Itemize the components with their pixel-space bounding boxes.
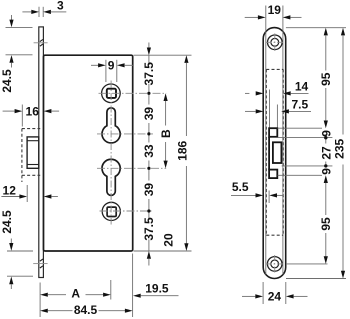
svg-text:37.5: 37.5 xyxy=(142,62,156,86)
top screw hole xyxy=(266,33,284,51)
svg-text:37.5: 37.5 xyxy=(142,217,156,241)
dim 7.5 xyxy=(245,98,311,114)
euro profile cylinder hole lower (stem down) xyxy=(102,159,120,195)
latch cutout (top square) xyxy=(269,128,277,137)
case bottom extension line xyxy=(134,250,192,252)
dim A: backset xyxy=(40,287,111,301)
svg-text:84.5: 84.5 xyxy=(74,303,98,317)
dim 24: faceplate width xyxy=(242,282,308,304)
svg-text:235: 235 xyxy=(332,138,346,158)
bottom screw hole xyxy=(266,255,284,273)
dim 14 xyxy=(245,80,309,96)
lock case outline xyxy=(44,55,133,251)
dim 5.5 xyxy=(231,180,284,203)
deadbolt cutout xyxy=(273,142,282,163)
dim 95 bottom xyxy=(319,175,333,264)
dim B: spindle to lower cylinder xyxy=(159,93,173,168)
svg-text:95: 95 xyxy=(319,217,333,231)
dim 9: spindle square xyxy=(91,59,133,82)
svg-text:39: 39 xyxy=(142,183,156,197)
latch hidden lines above cutout xyxy=(270,90,278,129)
cutout extension lines xyxy=(272,128,333,175)
plate bottom extension line xyxy=(286,278,346,280)
faceplate break mark bottom xyxy=(33,259,47,268)
svg-text:19: 19 xyxy=(268,3,282,17)
faceplate break mark top xyxy=(34,39,48,46)
svg-text:27: 27 xyxy=(319,146,333,160)
bottom square hole xyxy=(107,207,116,216)
bottom follower circle xyxy=(102,202,120,220)
chain dimension line 37.5/39/33/39/37.5 xyxy=(147,43,151,266)
svg-text:9: 9 xyxy=(108,59,115,73)
bottom screw extension line xyxy=(286,263,328,265)
svg-text:186: 186 xyxy=(176,140,190,160)
horizontal centerline cylinder upper xyxy=(97,133,153,135)
svg-text:24.5: 24.5 xyxy=(0,210,14,234)
svg-text:33: 33 xyxy=(142,144,156,158)
svg-text:24.5: 24.5 xyxy=(0,69,14,93)
svg-text:24: 24 xyxy=(268,290,282,304)
svg-text:9: 9 xyxy=(319,168,333,175)
dim 19: groove width xyxy=(245,3,302,20)
bottom extension line spindle axis xyxy=(110,280,112,300)
svg-text:7.5: 7.5 xyxy=(291,98,308,112)
deadbolt (thrown, solid outline) xyxy=(27,137,39,168)
svg-text:9: 9 xyxy=(319,130,333,137)
plate top extension line xyxy=(286,27,346,29)
cutout left edge link xyxy=(268,137,270,170)
hidden cutout rectangle (dashed) xyxy=(266,69,283,235)
dim 3: faceplate thickness xyxy=(22,0,66,17)
svg-text:5.5: 5.5 xyxy=(232,180,249,194)
svg-text:3: 3 xyxy=(57,0,64,12)
svg-text:16: 16 xyxy=(26,105,40,119)
svg-text:39: 39 xyxy=(142,107,156,121)
euro profile cylinder hole upper (stem up) xyxy=(102,108,120,143)
faceplate (edge view, vertical strip) xyxy=(39,27,44,278)
svg-text:20: 20 xyxy=(161,233,175,247)
horizontal centerline cylinder lower xyxy=(97,167,166,169)
spindle square hole 9mm xyxy=(107,89,116,98)
svg-text:14: 14 xyxy=(295,80,309,94)
dim 12: bolt throw xyxy=(1,183,58,202)
svg-text:95: 95 xyxy=(319,72,333,86)
case top extension line xyxy=(134,54,192,56)
bottom cutout square xyxy=(269,170,277,179)
spindle follower circle xyxy=(102,84,121,103)
dim 84.5: case depth xyxy=(40,303,133,317)
svg-text:A: A xyxy=(71,287,80,301)
faceplate outline (stadium) xyxy=(263,28,286,279)
bottom extension line faceplate xyxy=(39,283,41,318)
horizontal centerline spindle xyxy=(99,92,167,94)
svg-text:19.5: 19.5 xyxy=(145,281,169,295)
dim 19.5: axis to case back xyxy=(133,281,179,298)
faceplate groove line right xyxy=(282,6,284,275)
vertical centerline through holes xyxy=(110,81,112,225)
chain 9/27/9 xyxy=(324,136,327,168)
dim 95 top xyxy=(319,28,333,129)
bottom extension line case back xyxy=(132,254,134,318)
dim 16: bolt width (extended) xyxy=(3,105,60,127)
svg-text:12: 12 xyxy=(3,183,17,197)
faceplate groove line left xyxy=(265,6,267,275)
dim 235: faceplate length xyxy=(332,28,346,279)
horizontal centerline bottom follower xyxy=(100,210,154,212)
dim 24.5 bottom: faceplate overhang xyxy=(0,210,33,289)
dim 24.5 top: faceplate overhang xyxy=(0,15,33,93)
deadbolt extended position (hidden, dashed) xyxy=(22,129,40,182)
dim 186: case height xyxy=(176,55,190,251)
svg-text:B: B xyxy=(159,129,173,138)
